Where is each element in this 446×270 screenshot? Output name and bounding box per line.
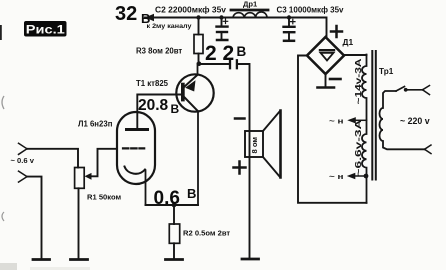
svg-text:Т1 кт825: Т1 кт825 [136,79,169,88]
svg-text:~ н: ~ н [329,172,344,181]
svg-text:В: В [171,102,180,116]
svg-text:32: 32 [115,3,137,25]
svg-text:Др1: Др1 [243,0,258,9]
svg-text:R1 50ком: R1 50ком [87,193,122,202]
svg-text:Л1 6н23п: Л1 6н23п [78,120,113,129]
svg-text:~ 0.6 v: ~ 0.6 v [11,156,35,165]
svg-text:Д1: Д1 [343,37,354,47]
svg-text:~14v-3A: ~14v-3A [354,58,363,104]
svg-text:В: В [187,186,196,201]
svg-text:С2 22000мкф 35v: С2 22000мкф 35v [155,6,227,15]
svg-text:8 ом: 8 ом [250,137,259,154]
svg-text:~ н: ~ н [329,116,344,125]
svg-text:R2 0.5ом 2вт: R2 0.5ом 2вт [183,229,230,238]
svg-text:~ 220 v: ~ 220 v [400,116,430,126]
svg-text:В: В [237,44,247,59]
svg-text:~6.6v-3A: ~6.6v-3A [354,119,363,176]
svg-text:2 2: 2 2 [205,42,234,65]
svg-text:0.6: 0.6 [154,188,180,209]
svg-text:к 2му каналу: к 2му каналу [147,23,192,30]
svg-text:20.8: 20.8 [138,97,169,114]
svg-text:В: В [141,11,150,26]
svg-text:R3 8ом 20вт: R3 8ом 20вт [136,47,182,56]
svg-text:Тр1: Тр1 [379,67,394,76]
svg-text:С3 10000мкф 35v: С3 10000мкф 35v [277,6,345,15]
svg-text:Рис.1: Рис.1 [26,23,65,37]
